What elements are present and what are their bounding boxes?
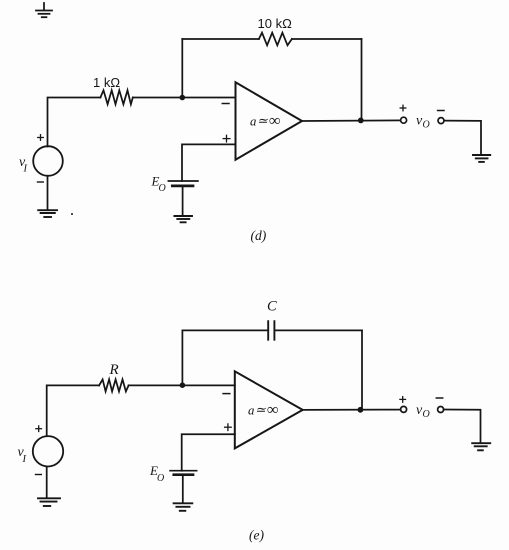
- output terminal + (e): [401, 406, 407, 412]
- wire battery to ground: [182, 186, 184, 215]
- wire feedback down to output: [361, 39, 363, 120]
- svg-text:≃: ≃: [255, 403, 266, 417]
- svg-text:≃: ≃: [257, 114, 268, 128]
- wire feedback top right: [292, 38, 362, 40]
- wire op-amp output: [302, 119, 401, 122]
- node junction at output (e): [358, 407, 364, 413]
- plus sign at vI (d): [38, 135, 44, 141]
- node junction at inverting input (e): [180, 382, 186, 388]
- plus sign at op-amp (d): [223, 135, 230, 142]
- capacitor C plates: [268, 321, 274, 340]
- svg-text:C: C: [267, 299, 277, 315]
- resistor R2 10 kOhm: [259, 33, 292, 46]
- speck: [71, 213, 73, 215]
- ground below vI (d): [38, 210, 57, 217]
- svg-text:∞: ∞: [269, 113, 280, 130]
- stray ground fragment top-left: [36, 3, 52, 17]
- wire vI to ground: [47, 176, 49, 210]
- resistor R1 1 kOhm: [100, 90, 132, 104]
- source vI (e): [33, 436, 63, 466]
- op-amp U2: [235, 371, 303, 448]
- output terminal - (e): [438, 407, 444, 413]
- wire op-amp output (e): [303, 409, 401, 411]
- svg-text:10 kΩ: 10 kΩ: [258, 16, 293, 31]
- output terminal - (d): [438, 118, 444, 124]
- svg-text:O: O: [157, 473, 164, 484]
- plus sign at vI (e): [36, 426, 42, 432]
- battery EO (d): [168, 181, 198, 186]
- wire junction up to feedback: [181, 39, 183, 98]
- wire feedback top right (e): [274, 329, 362, 331]
- plus sign above output terminal (e): [400, 397, 406, 403]
- battery EO (e): [170, 471, 197, 475]
- svg-text:I: I: [23, 164, 28, 175]
- plus sign above output terminal (d): [400, 105, 406, 111]
- svg-text:(e): (e): [249, 528, 264, 543]
- ground right (e): [472, 443, 490, 450]
- svg-text:∞: ∞: [267, 402, 278, 419]
- wire vI top to resistor R1: [48, 98, 101, 147]
- wire vI top to resistor R (e): [47, 385, 99, 436]
- wire feedback top left: [182, 38, 259, 40]
- wire R1 to op-amp inverting input: [133, 97, 236, 99]
- ground right (d): [473, 155, 490, 162]
- ground below EO (d): [174, 216, 192, 222]
- minus sign at op-amp (e): [223, 393, 230, 395]
- svg-text:a: a: [250, 114, 256, 128]
- minus sign at vI (d): [38, 181, 44, 183]
- svg-text:R: R: [109, 362, 119, 378]
- resistor R (e): [99, 379, 129, 391]
- svg-text:O: O: [423, 409, 430, 420]
- ground below EO (e): [174, 503, 193, 511]
- wire feedback top left (e): [182, 329, 268, 331]
- ground below vI (e): [38, 498, 60, 506]
- wire junction up to feedback (e): [181, 330, 183, 385]
- wire battery to ground (e): [182, 475, 184, 503]
- node junction at output (d): [358, 118, 364, 124]
- node junction at inverting input: [180, 95, 186, 101]
- svg-text:a: a: [248, 403, 254, 417]
- wire noninverting input: [182, 144, 236, 181]
- wire R to op-amp inverting input (e): [129, 384, 235, 386]
- source vI (d): [33, 146, 63, 176]
- minus sign at vI (e): [36, 474, 42, 476]
- svg-text:I: I: [22, 454, 27, 465]
- svg-text:O: O: [423, 120, 430, 131]
- output terminal + (d): [401, 117, 407, 123]
- svg-text:(d): (d): [251, 228, 267, 243]
- svg-text:1 kΩ: 1 kΩ: [93, 75, 120, 90]
- plus sign at op-amp (e): [225, 424, 232, 431]
- minus sign at op-amp (d): [222, 103, 229, 105]
- svg-text:O: O: [159, 183, 166, 194]
- minus sign above terminal (d): [438, 110, 444, 112]
- wire terminal to right ground (d): [444, 121, 481, 155]
- minus sign above terminal (e): [436, 397, 442, 399]
- wire terminal to right ground (e): [444, 410, 481, 443]
- wire noninverting input (e): [182, 434, 235, 470]
- wire vI to ground (e): [46, 467, 48, 498]
- wire feedback down to output (e): [361, 330, 363, 409]
- op-amp U1: [236, 82, 303, 159]
